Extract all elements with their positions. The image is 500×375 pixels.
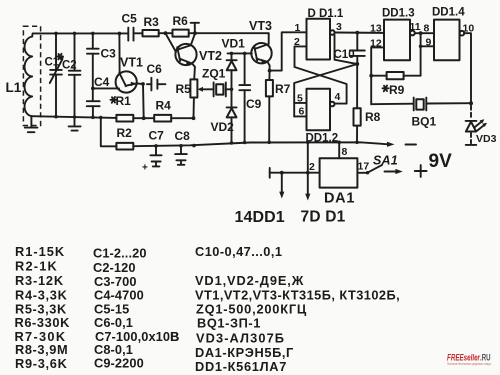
wire left drop to R2 [101,118,117,147]
label R5 [176,82,192,96]
svg-text:C10-0,47...0,1: C10-0,47...0,1 [195,244,282,259]
svg-text:8: 8 [342,146,348,158]
resistor R4 [154,115,171,122]
label C2 with asterisk [57,54,77,72]
label DD1.1 [308,8,344,20]
pin 1 label [295,22,301,34]
capacitor C9 [239,53,250,142]
svg-text:C4: C4 [94,75,110,89]
resistor R7 [266,71,273,143]
label 9V [429,151,453,172]
label C3 [101,47,117,61]
pin 13 label [370,23,382,35]
wire VT3 base [228,52,252,56]
svg-text:R8: R8 [365,110,381,124]
battery minus sign [406,144,417,146]
label VD2 [211,120,235,134]
parts list column R [15,244,71,371]
node supply stub above R6 [191,23,199,33]
svg-text:6: 6 [299,106,305,118]
svg-text:1: 1 [295,22,301,34]
svg-text:C3: C3 [101,47,117,61]
svg-text:R7: R7 [275,82,291,96]
wire supply drop 14DD1 arrow [279,171,284,199]
svg-text:2: 2 [309,161,315,173]
svg-text:13: 13 [370,23,382,35]
svg-text:SA1: SA1 [373,154,398,168]
svg-text:5: 5 [297,93,303,105]
svg-text:C8: C8 [175,129,191,143]
svg-text:R6-330K: R6-330K [15,315,71,330]
svg-text:R5: R5 [176,82,192,96]
resistor R6 [173,30,189,37]
svg-text:R9: R9 [389,83,405,97]
capacitor C8 to ground [175,146,187,165]
wire DA1 pin2 line with end bar [270,168,320,178]
capacitor C4 [87,101,100,117]
svg-text:D D1.1: D D1.1 [308,8,344,20]
wire R6 to VT3 collector line [189,31,269,35]
piezo BQ1 [414,98,471,111]
svg-text:C9-2200: C9-2200 [94,356,144,371]
svg-text:+: + [142,163,148,174]
svg-text:8: 8 [424,23,430,35]
resistor R1 [116,115,133,122]
transistor VT3 [251,33,271,70]
label BQ1 [412,115,437,129]
label R2 [117,126,133,140]
svg-text:VT2: VT2 [199,49,222,63]
svg-text:R8-3,9M: R8-3,9M [15,342,68,357]
label 7DD1 [301,209,346,226]
label R7 [275,82,291,96]
node VT1 base tap [91,87,95,91]
parts list column types [170,244,400,374]
node bottom bus junctions [154,141,359,148]
quartz ZQ1 [214,82,232,96]
transistor VT1 [116,34,143,93]
node C10 bottom junction [355,62,359,66]
svg-text:R2: R2 [117,126,133,140]
transistor VT2 [166,33,197,66]
svg-text:C5: C5 [122,12,138,26]
battery plus sign [415,165,427,177]
resistor R5 (trimmer) [190,67,197,118]
pin 2 label [294,36,300,48]
wire DD1.1 pin2 cross-couple from DD1.2 output [295,46,347,103]
label C1 [45,57,60,69]
capacitor C7 to ground [150,146,161,167]
svg-text:R4: R4 [156,99,172,113]
gate DD1.1 [307,19,335,60]
svg-text:9V: 9V [429,151,453,172]
label C6 [147,62,163,76]
wire R4 to R5 vertical [171,116,195,120]
wire VT1 base [93,87,119,89]
svg-text:4: 4 [335,91,341,103]
svg-text:C2: C2 [62,60,77,72]
label C5 [122,12,138,26]
label R3 [144,15,160,29]
pin 4 label [335,91,341,103]
wire supply drop 7DD1 arrow [305,142,310,200]
label VT1 [120,56,143,70]
svg-text:R9-3,6K: R9-3,6K [15,356,68,371]
label VT3 [249,19,272,33]
svg-text:Полезные бесплатные цифровые т: Полезные бесплатные цифровые товары [447,361,491,366]
resistor R2 [116,143,133,150]
svg-text:BQ1: BQ1 [412,115,437,129]
svg-text:3: 3 [336,21,342,33]
pin 8 label DA1 [342,146,348,158]
gate DD1.2 [307,89,335,131]
regulator DA1 [320,158,358,187]
wire DD1.4 pin9 [419,45,434,49]
svg-text:R1-15K: R1-15K [15,244,65,259]
pin 3 label [336,21,342,33]
label R8 [365,110,381,124]
svg-text:C4-4700: C4-4700 [94,288,144,303]
label DD1.2 [306,133,339,145]
label VT2 [199,49,222,63]
gate DD1.4 [434,20,464,61]
capacitor C2 [69,33,81,125]
wire DD1.3 pin12 feedback [369,47,384,104]
svg-text:VT3: VT3 [249,19,272,33]
svg-text:VD2: VD2 [211,120,235,134]
diode VD2 [227,107,237,142]
ground under C2 [69,126,81,130]
label C4 [94,75,110,89]
svg-text:R1: R1 [116,94,132,108]
capacitor C6 [147,78,165,91]
node top bus junctions [54,32,121,36]
svg-text:VD3-АЛ307Б: VD3-АЛ307Б [196,331,285,346]
label DA1 [324,191,355,207]
wire DA1 pin8 to bus [338,142,340,158]
switch SA1 [357,165,402,175]
resistor R9 [371,33,420,79]
inductor L1 coil [25,37,33,117]
node ZQ1 junction [230,88,234,92]
label C8 [175,129,191,143]
label C7 [142,129,164,174]
capacitor C1 (variable) [50,33,64,116]
svg-text:VD1,VD2-Д9Е,Ж: VD1,VD2-Д9Е,Ж [195,273,304,288]
svg-text:R2-1K: R2-1K [15,259,58,274]
wire mid bus L1 to R1 [32,116,116,118]
svg-text:9: 9 [426,37,432,49]
wire BQ1 left feed [371,103,413,106]
svg-text:В: В [170,329,179,344]
pin 6 label [299,106,305,118]
svg-text:C7: C7 [149,129,165,143]
svg-text:R3: R3 [144,15,160,29]
wire DD1.2 pin5 cross-couple from C10 node [294,64,357,116]
label 14DD1 [235,209,285,226]
svg-text:R6: R6 [173,14,189,28]
pin 5 label [297,93,303,105]
label R9 with asterisk [383,83,405,97]
svg-text:BQ1-ЗП-1: BQ1-ЗП-1 [197,316,261,331]
svg-text:DD1.3: DD1.3 [382,8,415,20]
svg-text:7D D1: 7D D1 [301,209,346,226]
label ZQ1 [202,67,226,81]
svg-text:L1: L1 [6,80,22,95]
svg-text:DA1-КРЭН5Б,Г: DA1-КРЭН5Б,Г [195,345,294,360]
node mid bus junctions [54,115,102,119]
label DD1.3 [382,8,415,20]
diode VD1 [227,53,237,107]
parts list column C [93,246,179,371]
label VD3 [476,133,497,145]
resistor R3 [143,30,159,36]
svg-text:VD1: VD1 [222,37,246,51]
svg-text:C9: C9 [246,97,262,111]
wire DD1.4 output down [464,33,471,103]
svg-text:DD1.2: DD1.2 [306,133,339,145]
led VD3 [466,106,487,145]
svg-text:C1: C1 [45,57,60,69]
label L1 [6,80,22,95]
capacitor C3 [87,33,99,101]
svg-text:C2-120: C2-120 [93,260,136,275]
pin 10 label [463,23,475,35]
svg-text:DD1-К561ЛА7: DD1-К561ЛА7 [195,359,287,374]
svg-text:VD3: VD3 [476,133,497,145]
svg-text:14DD1: 14DD1 [235,209,285,226]
capacitor C5 [128,28,142,41]
resistor R8 [354,64,361,142]
gate DD1.3 [384,20,415,61]
label R4 [156,99,172,113]
logo FREEseller.RU [447,353,491,366]
label R6 [173,14,189,28]
svg-text:11: 11 [410,21,421,33]
wire bottom bus [133,142,394,147]
svg-text:DA1: DA1 [324,191,355,207]
label C10 [334,49,355,61]
label SA1 [373,154,398,168]
label VD1 [222,37,246,51]
wire DD1.1 output to DD1.3 pin13 [335,31,384,35]
wire emitter feedback vertical [141,82,145,118]
label 17 [358,161,370,173]
svg-text:ZQ1-500,200КГЦ: ZQ1-500,200КГЦ [196,302,307,317]
wire top bus [32,33,128,36]
pin 2 label DA1 [309,161,315,173]
inductor L1 dashed screen box [23,26,40,125]
svg-text:VT1,VT2,VT3-КТ315Б, КТ3102Б,: VT1,VT2,VT3-КТ315Б, КТ3102Б, [195,288,400,303]
svg-text:17: 17 [358,161,370,173]
label DD1.4 [432,7,465,19]
svg-text:C6: C6 [147,62,163,76]
pin 11 label [410,21,421,33]
svg-text:ZQ1: ZQ1 [202,67,226,81]
svg-text:R3-12K: R3-12K [15,273,64,288]
node BQ1 output junction [469,101,473,105]
node VT3 emitter junction [268,69,272,73]
wire ZQ1 wiper arrow into R5 [197,87,213,92]
pin 8 label [424,23,430,35]
ground under L1 [25,116,38,132]
wire VT3 emitter to DD1.1 pin1 [270,32,307,70]
pin 9 label [426,37,432,49]
svg-text:C6-0,1: C6-0,1 [94,315,133,330]
svg-text:VT1: VT1 [120,56,143,70]
svg-text:C10: C10 [334,49,355,61]
wire DD1.3 output to DD1.4 pin8 [415,31,434,35]
label C9 [246,97,262,111]
svg-text:DD1.4: DD1.4 [432,7,465,19]
label R1 with asterisk [111,94,132,108]
wire R1 to R4 [133,116,154,120]
svg-text:R4-3,3K: R4-3,3K [15,288,68,303]
svg-text:C1-2...20: C1-2...20 [93,246,147,261]
wire R3 to R6 with junction [159,31,173,35]
capacitor C10 [335,33,365,64]
pin 12 label [370,38,382,50]
